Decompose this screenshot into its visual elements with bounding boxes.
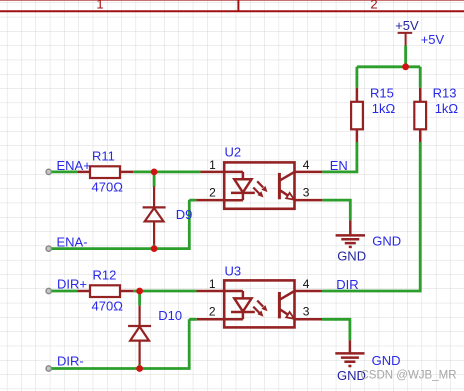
svg-text:+5V: +5V bbox=[421, 32, 445, 47]
svg-text:DIR-: DIR- bbox=[57, 354, 84, 369]
svg-text:ENA+: ENA+ bbox=[57, 158, 91, 173]
svg-text:U2: U2 bbox=[225, 145, 242, 160]
svg-text:1kΩ: 1kΩ bbox=[372, 101, 396, 116]
svg-text:1: 1 bbox=[209, 158, 216, 172]
svg-text:+5V: +5V bbox=[395, 18, 419, 33]
svg-text:R13: R13 bbox=[433, 85, 457, 100]
svg-text:GND: GND bbox=[372, 234, 401, 249]
svg-text:2: 2 bbox=[370, 0, 377, 11]
svg-text:2: 2 bbox=[209, 186, 216, 200]
svg-text:D10: D10 bbox=[158, 308, 182, 323]
svg-text:CSDN @WJB_MR: CSDN @WJB_MR bbox=[361, 370, 457, 382]
svg-text:DIR: DIR bbox=[336, 277, 358, 292]
svg-text:1kΩ: 1kΩ bbox=[435, 101, 459, 116]
svg-text:EN: EN bbox=[330, 158, 348, 173]
svg-text:ENA-: ENA- bbox=[57, 234, 88, 249]
svg-text:470Ω: 470Ω bbox=[92, 179, 124, 194]
svg-text:GND: GND bbox=[337, 249, 366, 264]
svg-text:DIR+: DIR+ bbox=[57, 277, 87, 292]
svg-text:470Ω: 470Ω bbox=[92, 298, 124, 313]
svg-text:R15: R15 bbox=[370, 85, 394, 100]
svg-text:GND: GND bbox=[372, 353, 401, 368]
svg-text:4: 4 bbox=[303, 158, 310, 172]
svg-text:R11: R11 bbox=[92, 148, 115, 163]
svg-text:1: 1 bbox=[96, 0, 103, 11]
svg-text:3: 3 bbox=[303, 186, 310, 200]
svg-text:R12: R12 bbox=[93, 268, 117, 283]
svg-text:D9: D9 bbox=[176, 207, 193, 222]
svg-text:2: 2 bbox=[209, 304, 216, 318]
svg-text:4: 4 bbox=[303, 277, 310, 291]
svg-text:3: 3 bbox=[303, 304, 310, 318]
svg-text:1: 1 bbox=[209, 277, 216, 291]
svg-text:U3: U3 bbox=[225, 264, 242, 279]
